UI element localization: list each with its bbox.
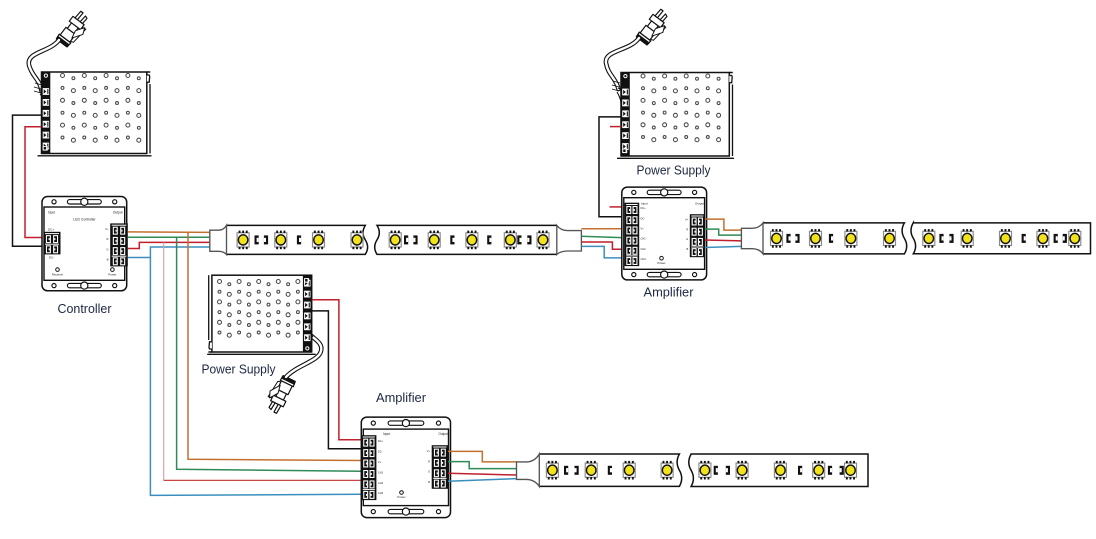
- LS3 LED D8: [813, 463, 825, 477]
- U1 output terminal block: [110, 223, 128, 266]
- LS2 solderless connector (left): [741, 223, 763, 254]
- U2 power indicator: [660, 256, 664, 260]
- amplifier U3 mounting holes: [371, 420, 440, 427]
- svg-text:R: R: [686, 227, 688, 231]
- LS3 resistor chip: [840, 466, 844, 475]
- amplifier U2 case: [622, 187, 707, 280]
- LS2 LED D2: [810, 231, 822, 245]
- wire U2 V+ to strip2 (orange): [705, 219, 742, 230]
- svg-text:B: B: [428, 480, 430, 484]
- LS2 LED D1: [771, 231, 783, 245]
- svg-text:G: G: [686, 237, 688, 241]
- wire PS2 DC+ stub (red): [610, 126, 621, 128]
- svg-text:DC-: DC-: [49, 256, 54, 260]
- wire PS2 DC- to U2 (black): [599, 117, 625, 217]
- LS1 solderless connector (left): [210, 225, 227, 254]
- svg-text:DC-: DC-: [378, 449, 383, 453]
- LS2 resistor chip: [786, 234, 790, 243]
- LS3 LED D4: [661, 463, 673, 477]
- LS1 LED D1: [237, 233, 249, 247]
- LS1 resistor chip: [255, 235, 259, 244]
- svg-text:CH1: CH1: [641, 237, 647, 241]
- LS1 resistor chip: [404, 235, 408, 244]
- wire strip1 to U2 R (green): [581, 236, 624, 237]
- LS3 resistor chip: [575, 466, 579, 475]
- svg-text:DC-: DC-: [641, 216, 646, 220]
- PS2 terminal block: [621, 73, 630, 157]
- amplifier U3 case: [361, 417, 450, 517]
- PS1 ventilation holes: [61, 74, 141, 143]
- svg-text:Amplifier: Amplifier: [644, 285, 695, 300]
- svg-text:V+: V+: [378, 460, 382, 464]
- power supply PS3 body: [207, 275, 316, 354]
- LED strip LS2 body: [763, 223, 1091, 254]
- svg-text:Input: Input: [641, 202, 648, 206]
- LS2 resistor chip: [1022, 234, 1026, 243]
- svg-text:Input: Input: [383, 432, 390, 436]
- LS1 resistor chip: [264, 235, 268, 244]
- LS3 LED D7: [774, 463, 786, 477]
- wire U1 G to strip1 (red): [128, 242, 210, 248]
- wire G branch to U3 (red): [163, 242, 165, 480]
- LS2 resistor chip: [949, 234, 953, 243]
- wire U2 DC+ stub (red): [610, 206, 625, 208]
- power cord C3: [286, 336, 321, 377]
- P1 lead wires into PS1 terminals: [40, 90, 46, 103]
- wire B branch to U3 (blue): [150, 258, 361, 496]
- wire U1 V+ to strip1 (orange): [128, 231, 210, 234]
- LS3 resistor chip: [798, 466, 802, 475]
- U2 output terminal block: [690, 214, 705, 257]
- svg-text:CH2: CH2: [378, 481, 384, 485]
- LS3 LED D9: [845, 463, 857, 477]
- LS2 LED D4: [884, 231, 896, 245]
- LS1 LED D6: [428, 233, 440, 247]
- LS1 resistor chip: [450, 235, 454, 244]
- LS2 LED D8: [1037, 231, 1049, 245]
- U1 DC input terminal block: [44, 232, 61, 255]
- LS2 LED D6: [961, 231, 973, 245]
- wire G branch to U3 lower (red): [164, 479, 362, 481]
- svg-text:LED Controller: LED Controller: [73, 218, 96, 222]
- LS2 resistor chip: [939, 234, 943, 243]
- LS1 resistor chip: [487, 235, 491, 244]
- power supply PS2 body: [617, 73, 734, 159]
- LS2 LED D5: [923, 231, 935, 245]
- controller U1 mounting holes: [52, 198, 117, 205]
- LS1 solderless connector (right): [557, 225, 582, 254]
- PS3 terminal block: [303, 275, 312, 352]
- svg-text:CH2: CH2: [641, 247, 647, 251]
- wire U3 R to strip3 (green): [448, 462, 517, 469]
- svg-text:Power Supply: Power Supply: [202, 362, 276, 377]
- LS2 LED D7: [1000, 231, 1012, 245]
- LS1 LED D8: [504, 233, 516, 247]
- LS3 resistor chip: [828, 466, 832, 475]
- svg-text:G: G: [428, 470, 430, 474]
- PS1 terminal block: [42, 72, 51, 154]
- AC plug P2: [636, 7, 673, 48]
- svg-text:DC+: DC+: [48, 228, 54, 232]
- wire V+ branch to U3 (orange): [188, 232, 362, 460]
- amplifier U3 mounting holes: [371, 508, 440, 515]
- LS2 LED D3: [845, 231, 857, 245]
- power cord C1: [29, 40, 59, 91]
- svg-text:Output: Output: [113, 211, 123, 215]
- svg-text:CH1: CH1: [378, 470, 384, 474]
- LS3 resistor chip: [726, 466, 730, 475]
- svg-text:DC+: DC+: [378, 439, 384, 443]
- svg-text:Output: Output: [438, 432, 448, 436]
- amplifier U2 mounting holes: [632, 189, 697, 196]
- wire strip1 to U2 B (blue): [581, 246, 624, 258]
- svg-text:R: R: [428, 459, 430, 463]
- LS3 LED D5: [699, 463, 711, 477]
- svg-text:DC+: DC+: [641, 206, 647, 210]
- LS3 LED D1: [546, 463, 558, 477]
- wire U3 G to strip3 (red): [448, 473, 517, 475]
- LED strip LS3 body: [539, 454, 868, 487]
- svg-text:V+: V+: [685, 218, 689, 222]
- P2 lead wires into PS2 terminals: [617, 88, 622, 102]
- svg-text:V+: V+: [641, 227, 645, 231]
- controller U1 mounting holes: [52, 282, 117, 289]
- wire PS3 DC+ to U3 (red): [312, 300, 362, 440]
- controller U1 case: [42, 197, 127, 291]
- svg-text:V+: V+: [427, 449, 431, 453]
- svg-text:Power: Power: [397, 495, 405, 499]
- wire U2 G to strip2 (red): [705, 239, 742, 242]
- LS3 resistor chip: [564, 466, 568, 475]
- svg-text:R: R: [106, 237, 108, 241]
- LS2 resistor chip: [795, 234, 799, 243]
- wire U1 R to strip1 (green): [128, 236, 210, 238]
- svg-text:Power: Power: [657, 261, 665, 265]
- svg-text:Output: Output: [695, 202, 704, 206]
- U2 input terminal block: [625, 203, 640, 266]
- svg-text:Power Supply: Power Supply: [637, 163, 711, 178]
- wire U2 R to strip2 (green): [705, 229, 742, 235]
- svg-text:Input: Input: [48, 211, 55, 215]
- svg-text:B: B: [107, 258, 109, 262]
- AC plug P1: [56, 9, 93, 50]
- wire strip1 to U2 V+ (orange): [581, 228, 624, 230]
- LS3 resistor chip: [714, 466, 718, 475]
- LS3 solderless connector (left): [517, 454, 540, 487]
- power supply PS1 body: [38, 72, 152, 156]
- wire U2 B to strip2 (blue): [705, 246, 742, 247]
- svg-text:Receiver: Receiver: [52, 273, 63, 277]
- LS1 LED D3: [313, 233, 325, 247]
- wire PS1 DC- (black): [13, 115, 47, 246]
- LS1 resistor chip: [413, 235, 417, 244]
- LS2 resistor chip: [1063, 234, 1067, 243]
- LS3 LED D3: [623, 463, 635, 477]
- LS1 LED D2: [275, 233, 287, 247]
- U1 power indicator: [111, 268, 115, 272]
- svg-text:CH3: CH3: [641, 257, 647, 261]
- wire PS1 DC+ (red): [25, 127, 46, 238]
- PS2 ventilation holes: [641, 74, 721, 142]
- U3 power indicator: [400, 491, 404, 495]
- wire U3 V+ to strip3 (orange): [448, 451, 517, 462]
- U3 output terminal block: [432, 445, 448, 489]
- svg-text:Power: Power: [108, 273, 116, 277]
- svg-text:B: B: [686, 247, 688, 251]
- wire U3 B to strip3 (blue): [448, 479, 517, 482]
- LS3 resistor chip: [608, 466, 612, 475]
- LS2 resistor chip: [1054, 234, 1058, 243]
- LS3 LED D2: [585, 463, 597, 477]
- U1 receiver indicator: [56, 268, 60, 272]
- svg-text:Controller: Controller: [58, 301, 113, 316]
- power cord C2: [606, 38, 639, 89]
- LS1 resistor chip: [527, 235, 531, 244]
- svg-text:G: G: [106, 247, 108, 251]
- wire U1 B to strip1 (blue): [128, 247, 210, 258]
- LS3 LED D6: [736, 463, 748, 477]
- AC plug P3: [262, 373, 295, 414]
- U3 input terminal block: [361, 435, 376, 500]
- wire PS3 DC- to U3 (black): [312, 311, 362, 449]
- LS1 LED D5: [389, 233, 401, 247]
- wire strip1 to U2 G (red): [581, 242, 624, 249]
- LS2 resistor chip: [829, 234, 833, 243]
- LS1 resistor chip: [297, 235, 301, 244]
- svg-text:CH3: CH3: [378, 491, 384, 495]
- LS1 LED D4: [351, 233, 363, 247]
- LS2 LED D9: [1069, 231, 1081, 245]
- LS1 LED D9: [537, 233, 549, 247]
- svg-text:Amplifier: Amplifier: [376, 390, 427, 405]
- amplifier U2 mounting holes: [632, 271, 697, 278]
- LS1 resistor chip: [517, 235, 521, 244]
- LS1 LED D7: [466, 233, 478, 247]
- LED strip LS1 body: [227, 225, 557, 254]
- svg-text:V+: V+: [105, 227, 109, 231]
- PS3 ventilation holes: [218, 280, 300, 338]
- wire R branch to U3 (green): [177, 237, 362, 471]
